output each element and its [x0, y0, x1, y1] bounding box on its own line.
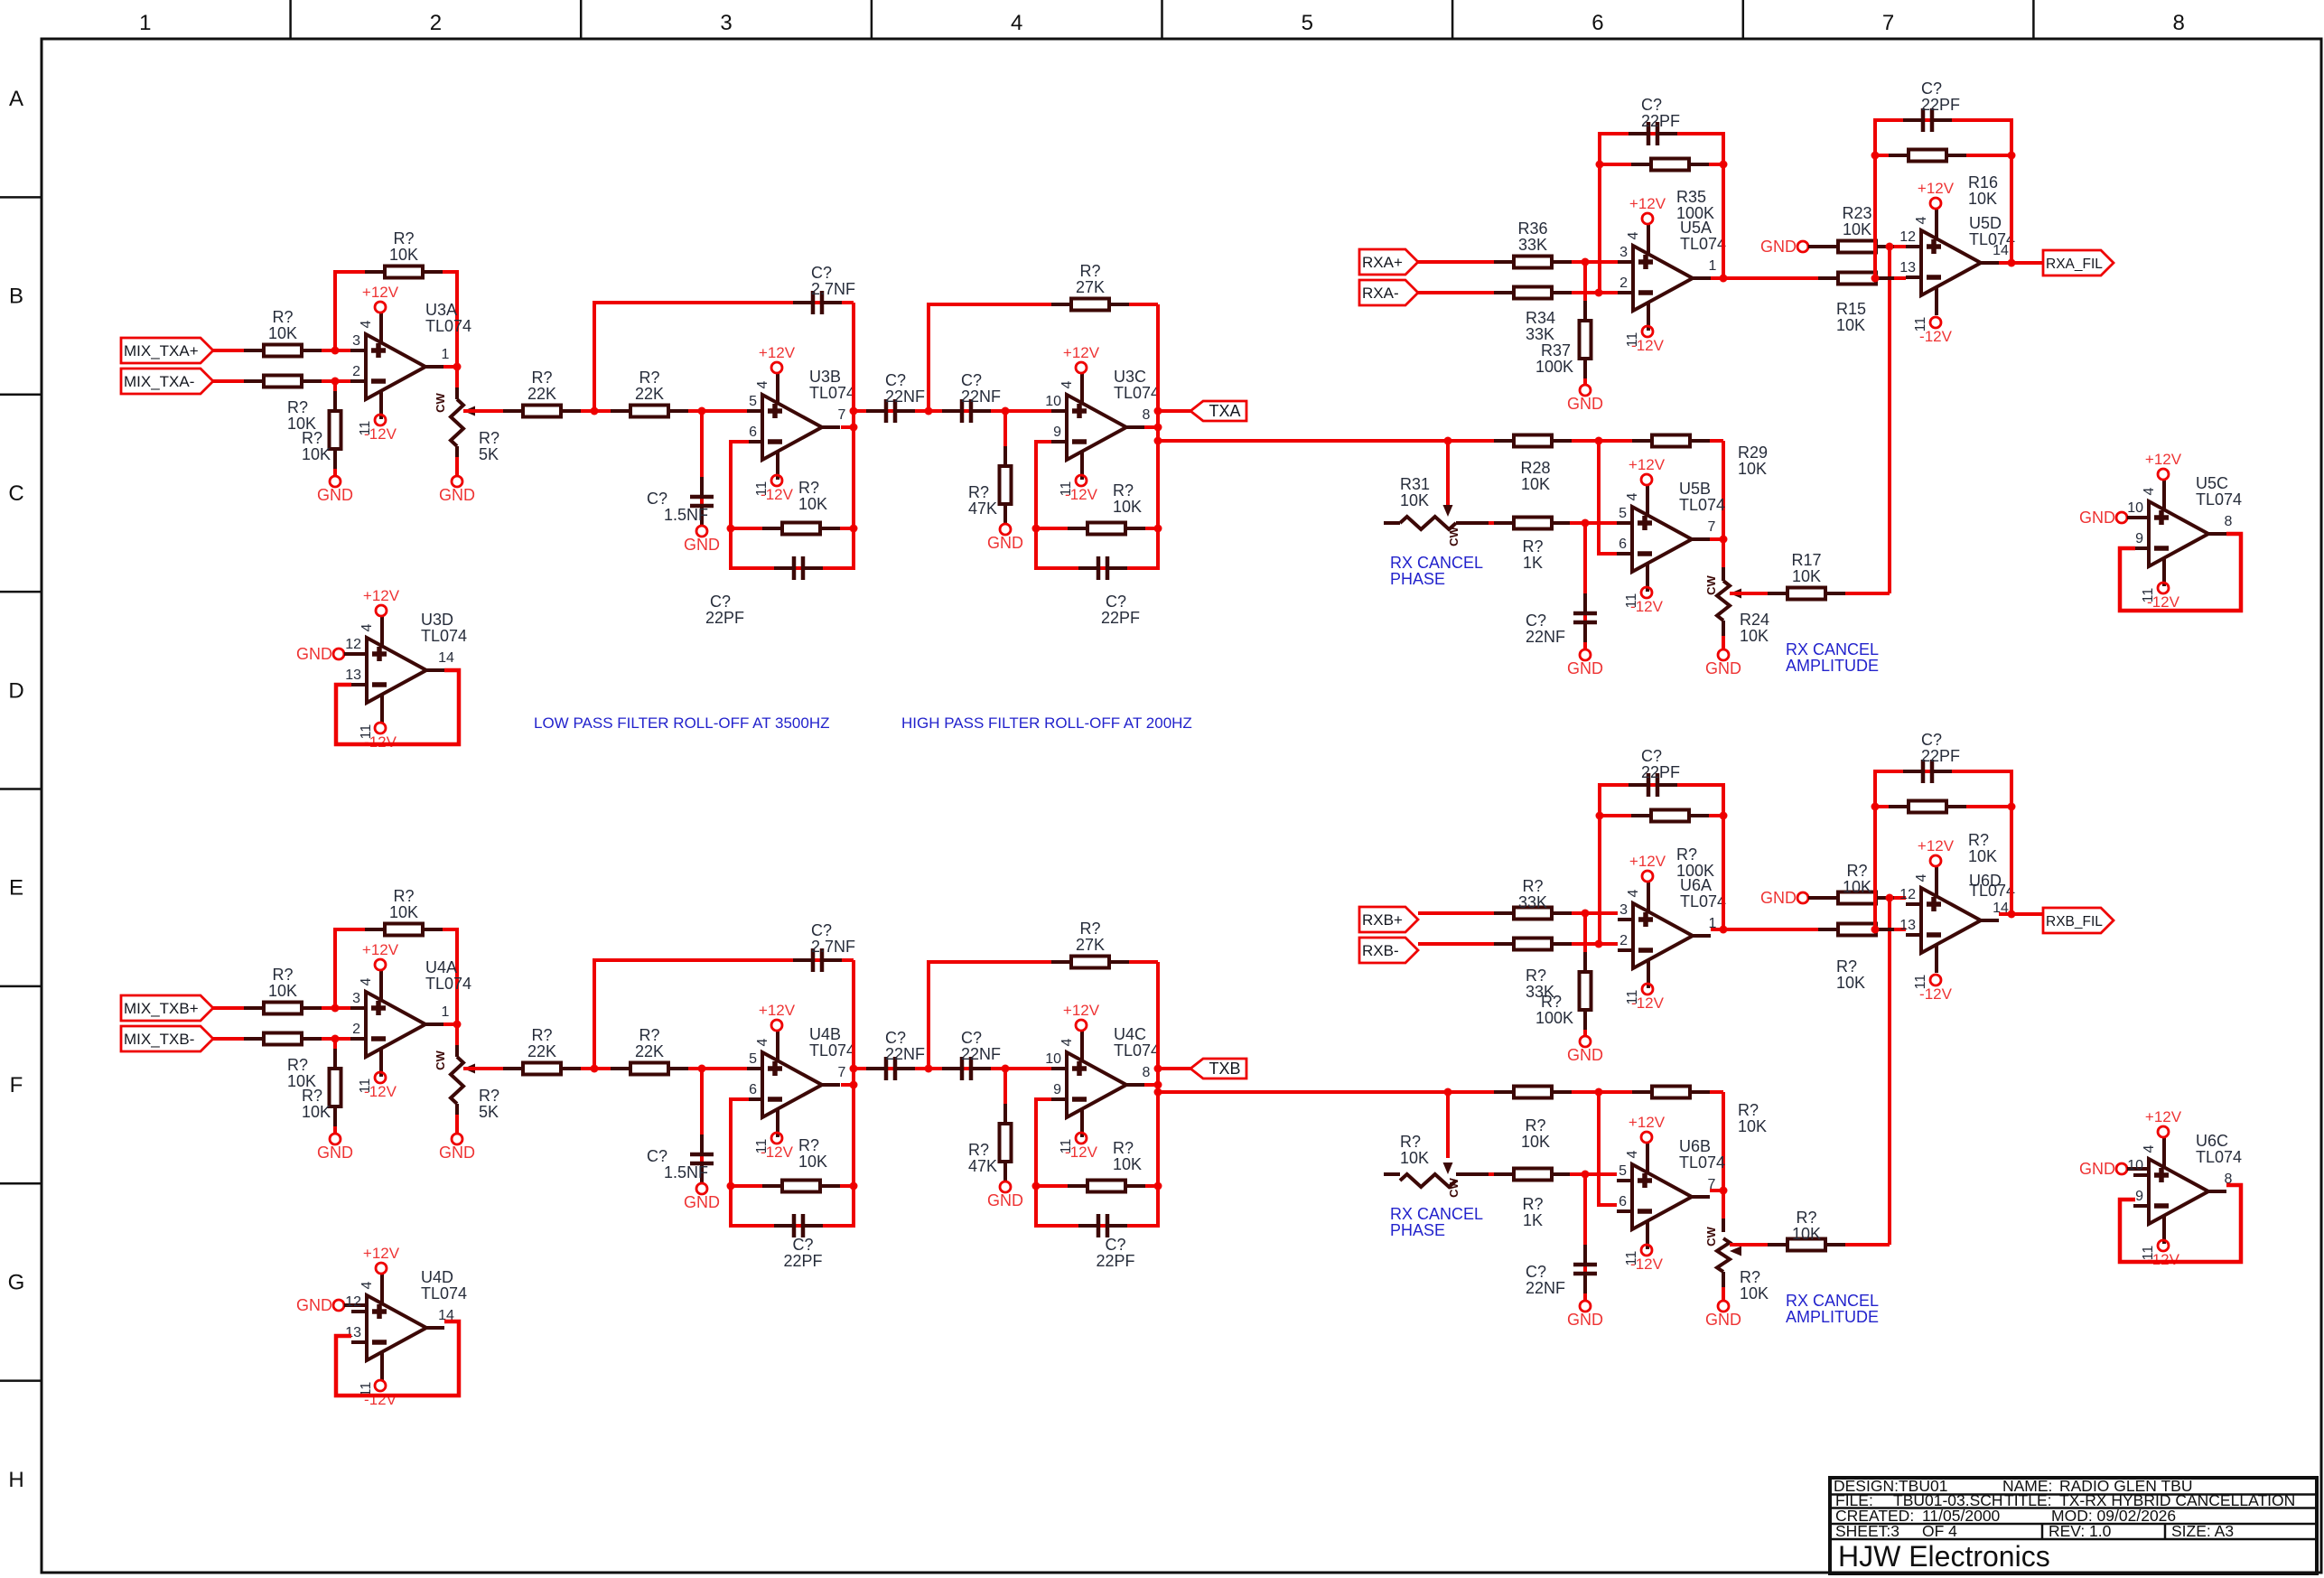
wire	[213, 379, 350, 383]
svg-text:GND: GND	[317, 486, 353, 504]
svg-text:22K: 22K	[527, 385, 556, 403]
svg-text:C?: C?	[961, 371, 982, 389]
svg-text:33K: 33K	[1518, 893, 1547, 911]
svg-text:+12V: +12V	[759, 1002, 796, 1019]
svg-text:12: 12	[345, 1294, 361, 1310]
label R? 27K	[1076, 262, 1105, 296]
wire follower loop unused	[2120, 534, 2241, 611]
svg-text:100K: 100K	[1676, 862, 1714, 880]
node	[1154, 1081, 1162, 1089]
label R31 10K	[1400, 475, 1430, 509]
svg-text:GND: GND	[2079, 1160, 2115, 1178]
ground port gnd	[1760, 238, 1808, 256]
wire inverting loop	[731, 1099, 854, 1226]
capacitor C? 22PF u5d	[1903, 760, 1952, 783]
capacitor C? 22PF feedback	[1629, 773, 1677, 797]
node fb r	[1720, 812, 1728, 820]
label R28 10K	[1520, 459, 1550, 493]
ground	[1567, 385, 1603, 413]
svg-text:-12V: -12V	[761, 486, 794, 503]
wire pot bottom	[455, 457, 459, 476]
wire inverting loop 2	[1036, 442, 1158, 568]
svg-text:U5C: U5C	[2196, 474, 2228, 492]
wire follower loop unused	[2120, 1185, 2241, 1262]
svg-text:5: 5	[1302, 11, 1313, 35]
svg-text:22PF: 22PF	[783, 1252, 822, 1270]
svg-text:22K: 22K	[527, 1042, 556, 1060]
label R? 10K	[1113, 1139, 1142, 1173]
svg-text:-12V: -12V	[2147, 1251, 2180, 1268]
node output pin1	[453, 363, 462, 371]
svg-text:TXA: TXA	[1209, 402, 1240, 420]
svg-text:10K: 10K	[798, 1153, 827, 1171]
svg-text:R?: R?	[639, 369, 659, 387]
label R16 10K	[1968, 173, 1998, 208]
svg-text:10K: 10K	[1113, 498, 1142, 516]
svg-text:R?: R?	[1846, 862, 1867, 880]
wire wiper to r17	[1730, 592, 1890, 595]
svg-text:RXA_FIL: RXA_FIL	[2046, 257, 2103, 272]
wire r23 to pin12	[1894, 896, 1906, 900]
wire hpf feedback	[929, 304, 1158, 411]
port MIX_TXB-	[121, 1026, 213, 1051]
svg-text:+12V: +12V	[2145, 451, 2182, 468]
resistor R17 10K wiper	[1768, 588, 1845, 600]
svg-text:R15: R15	[1836, 300, 1866, 318]
svg-text:U3B: U3B	[809, 368, 841, 386]
svg-text:4: 4	[1011, 11, 1022, 35]
svg-text:-12V: -12V	[1631, 337, 1665, 354]
svg-text:4: 4	[1625, 1150, 1640, 1158]
wire fb down	[1722, 1092, 1725, 1229]
svg-text:1.5NF: 1.5NF	[664, 1163, 708, 1181]
svg-text:C?: C?	[961, 1029, 982, 1047]
wire gnd lead	[1808, 245, 1820, 248]
svg-text:6: 6	[1591, 11, 1603, 35]
svg-text:TITLE:: TITLE:	[2004, 1491, 2052, 1509]
svg-text:B: B	[9, 285, 23, 309]
node	[850, 407, 858, 416]
svg-text:R31: R31	[1400, 475, 1430, 493]
svg-text:22PF: 22PF	[705, 609, 744, 627]
label C? 22NF	[885, 371, 925, 406]
label R? 10K	[1836, 957, 1865, 992]
label U5D	[1969, 214, 2015, 248]
svg-text:R36: R36	[1517, 219, 1547, 238]
wire loop r 2	[1036, 1184, 1158, 1188]
op-amp U3C	[1045, 373, 1150, 496]
svg-text:6: 6	[1619, 1194, 1627, 1209]
label RX CANCEL PHASE	[1390, 1205, 1483, 1239]
node pin2	[331, 1035, 340, 1043]
power +12V U5A	[1629, 195, 1666, 224]
svg-text:R23: R23	[1842, 204, 1871, 222]
wiper arrow R?	[1730, 1247, 1741, 1256]
svg-text:R17: R17	[1791, 551, 1821, 569]
wire u5d out	[1999, 261, 2043, 265]
capacitor C? 2.7NF	[793, 291, 842, 314]
svg-text:GND: GND	[317, 1144, 353, 1162]
wire u5d fb loop	[1875, 771, 2011, 929]
label R? 22K	[527, 1026, 556, 1060]
svg-text:R?: R?	[272, 966, 293, 984]
node	[1002, 1065, 1010, 1073]
label C? 22NF	[885, 1029, 925, 1063]
svg-text:PHASE: PHASE	[1390, 570, 1445, 588]
wire wiper to r17	[1730, 1243, 1890, 1247]
label U5A	[1680, 219, 1726, 253]
wire u5d fb r line	[1875, 805, 2011, 808]
svg-text:R?: R?	[798, 479, 819, 497]
label U3D	[421, 611, 467, 645]
svg-text:GND: GND	[439, 486, 475, 504]
port RXB_FIL	[2043, 908, 2114, 933]
svg-text:33K: 33K	[1526, 325, 1554, 343]
svg-text:10K: 10K	[1521, 1133, 1550, 1151]
svg-text:8: 8	[2173, 11, 2185, 35]
resistor R? 47K	[1000, 446, 1012, 524]
resistor R? 1K	[1494, 1169, 1572, 1181]
wire fb r line	[1600, 163, 1723, 166]
svg-text:10: 10	[1045, 394, 1061, 409]
label R? 100K	[1676, 845, 1714, 880]
svg-text:GND: GND	[1567, 1311, 1603, 1329]
port RXA-	[1359, 280, 1418, 305]
svg-text:13: 13	[345, 668, 361, 683]
svg-text:RX CANCEL: RX CANCEL	[1390, 1205, 1483, 1223]
node	[925, 407, 933, 416]
wire gnd lead unused2	[344, 1303, 369, 1307]
node fb r	[1720, 161, 1728, 169]
label U6C	[2196, 1132, 2242, 1166]
svg-text:22NF: 22NF	[1526, 628, 1565, 646]
label U3A	[425, 301, 471, 335]
svg-text:22PF: 22PF	[1101, 609, 1140, 627]
svg-text:R37: R37	[1541, 341, 1571, 359]
node	[591, 407, 599, 416]
svg-text:-12V: -12V	[1630, 598, 1664, 615]
label R37 100K	[1535, 341, 1573, 376]
wire r1k to pin5	[1570, 1172, 1617, 1176]
wire pot to r1k	[1489, 521, 1499, 525]
wire pin6 loop	[1599, 1092, 1617, 1205]
svg-text:10K: 10K	[1738, 460, 1767, 478]
svg-text:10: 10	[2127, 500, 2143, 516]
label U4B	[809, 1025, 855, 1060]
svg-text:TL074: TL074	[421, 1284, 467, 1303]
node output pin1	[453, 1021, 462, 1029]
wire main line 2	[854, 409, 1051, 413]
svg-text:10K: 10K	[1968, 190, 1997, 208]
resistor R? 10K input+	[244, 345, 322, 357]
svg-text:G: G	[8, 1270, 25, 1294]
label R? 10K	[1521, 1116, 1550, 1151]
wire fb down	[1722, 441, 1725, 578]
power +12V U5D	[1918, 180, 1955, 209]
svg-text:R35: R35	[1676, 188, 1706, 206]
svg-text:R?: R?	[1113, 481, 1134, 500]
svg-text:-12V: -12V	[1065, 486, 1098, 503]
power +12V U4B	[759, 1002, 796, 1031]
svg-text:CW: CW	[434, 1050, 447, 1069]
svg-text:R?: R?	[1541, 993, 1562, 1011]
node pin5	[1582, 519, 1590, 528]
resistor R? 10K to gnd	[330, 1049, 341, 1126]
title block	[1830, 1478, 2317, 1573]
wire	[213, 1037, 350, 1041]
node r28 out	[1595, 437, 1603, 445]
node wiper tap	[1444, 1088, 1452, 1097]
svg-text:+12V: +12V	[1063, 344, 1100, 361]
wire pot to r1k	[1489, 1172, 1499, 1176]
ground port unused2	[296, 1296, 344, 1314]
power -12V U5B	[1630, 587, 1664, 615]
wire fb loop	[1600, 134, 1723, 293]
svg-text:5: 5	[749, 394, 757, 409]
svg-text:-12V: -12V	[2147, 593, 2180, 611]
pot bottom lead	[455, 446, 459, 459]
svg-text:REV: 1.0: REV: 1.0	[2049, 1522, 2112, 1540]
ground port unused	[2079, 1160, 2127, 1178]
svg-text:10K: 10K	[798, 495, 827, 513]
label U6B	[1679, 1137, 1725, 1172]
svg-text:U4A: U4A	[425, 958, 457, 976]
svg-text:9: 9	[1053, 425, 1061, 440]
svg-text:8: 8	[1143, 1065, 1151, 1080]
pot top lead	[455, 387, 459, 399]
svg-text:RX CANCEL: RX CANCEL	[1786, 1292, 1879, 1310]
svg-text:100K: 100K	[1676, 204, 1714, 222]
svg-text:GND: GND	[987, 1191, 1023, 1209]
power -12V U4D	[364, 1380, 397, 1408]
resistor R? 10K hpf fb2	[1068, 523, 1145, 535]
svg-text:R?: R?	[1968, 831, 1989, 849]
node pin2	[331, 378, 340, 386]
svg-text:C?: C?	[710, 593, 731, 611]
label C? 2.7NF	[811, 921, 855, 956]
svg-text:10K: 10K	[1968, 847, 1997, 865]
svg-text:10K: 10K	[1836, 974, 1865, 992]
node out	[1720, 536, 1728, 544]
svg-text:TL074: TL074	[1679, 496, 1725, 514]
op-amp U4D unused	[345, 1274, 454, 1396]
svg-text:R?: R?	[1522, 537, 1543, 556]
wire	[213, 349, 350, 352]
svg-text:U5B: U5B	[1679, 480, 1711, 498]
node pin3	[331, 347, 340, 355]
power +12V U5C	[2145, 451, 2182, 480]
label R? 10K	[1740, 1268, 1769, 1303]
svg-text:1: 1	[1709, 258, 1717, 274]
svg-text:10K: 10K	[1521, 475, 1550, 493]
svg-text:-12V: -12V	[1630, 1256, 1664, 1273]
label C? 22PF	[1101, 593, 1140, 627]
resistor R? 22K	[611, 1063, 688, 1075]
capacitor C? 22PF u5d	[1903, 108, 1952, 132]
svg-text:1K: 1K	[1523, 1211, 1543, 1229]
power -12V U6C	[2147, 1240, 2180, 1268]
wire hpf feedback	[929, 962, 1158, 1069]
power +12V U3B	[759, 344, 796, 373]
power -12V U5C	[2147, 583, 2180, 611]
svg-text:MIX_TXB-: MIX_TXB-	[124, 1031, 194, 1048]
potentiometer R24 10K amplitude	[1717, 581, 1730, 621]
resistor R? 10K lpf feedback	[762, 1181, 840, 1192]
op-amp U6D	[1899, 866, 2009, 989]
label R? 47K	[968, 1141, 997, 1175]
svg-text:RX CANCEL: RX CANCEL	[1390, 554, 1483, 572]
svg-text:2: 2	[430, 11, 442, 35]
svg-text:TL074: TL074	[1680, 892, 1726, 910]
label R? 10K	[1968, 831, 1997, 865]
svg-text:5K: 5K	[479, 1103, 499, 1121]
pot top lead	[455, 1045, 459, 1057]
svg-text:-12V: -12V	[364, 1083, 397, 1100]
ground	[987, 1181, 1023, 1209]
svg-text:PHASE: PHASE	[1390, 1221, 1445, 1239]
svg-text:1.5NF: 1.5NF	[664, 506, 708, 524]
resistor R? 100K feedback	[1631, 810, 1709, 822]
svg-text:R?: R?	[1400, 1133, 1421, 1151]
svg-text:33K: 33K	[1518, 236, 1547, 254]
svg-text:+12V: +12V	[1629, 456, 1666, 473]
column numbers	[139, 11, 2185, 35]
capacitor C? 22PF	[774, 556, 823, 580]
power +12V U3A	[362, 284, 399, 313]
svg-text:27K: 27K	[1076, 278, 1105, 296]
wire feedback	[335, 272, 457, 367]
svg-text:GND: GND	[1705, 1311, 1741, 1329]
svg-text:CW: CW	[1704, 1226, 1718, 1246]
label R24 10K	[1740, 611, 1769, 645]
label R? 10K	[1113, 481, 1142, 516]
label RX CANCEL PHASE	[1390, 554, 1483, 588]
wire out stub 2	[1144, 425, 1158, 429]
svg-text:6: 6	[1619, 537, 1627, 552]
svg-text:47K: 47K	[968, 1157, 997, 1175]
svg-text:C?: C?	[885, 371, 906, 389]
svg-text:C?: C?	[1641, 96, 1662, 114]
node	[1002, 407, 1010, 416]
svg-text:R?: R?	[1525, 1116, 1545, 1134]
label R? 1K	[1522, 537, 1543, 572]
power -12V U3C	[1065, 475, 1098, 503]
resistor R? 22K	[503, 406, 581, 417]
svg-text:5: 5	[749, 1051, 757, 1067]
svg-text:U3D: U3D	[421, 611, 453, 629]
label R? 10K	[389, 229, 418, 264]
svg-text:12: 12	[1899, 887, 1916, 902]
capacitor C? 22PF feedback	[1629, 122, 1677, 145]
svg-text:R?: R?	[1676, 845, 1697, 864]
svg-text:22NF: 22NF	[885, 1045, 925, 1063]
svg-text:3: 3	[352, 333, 360, 349]
wire long output line	[1158, 439, 1723, 443]
label R? 33K	[1518, 877, 1547, 911]
svg-text:C?: C?	[1105, 1236, 1125, 1254]
ground	[439, 1134, 475, 1162]
node u5d pin13	[1871, 926, 1880, 934]
wire gnd lead unused2	[344, 652, 369, 656]
op-amp U5C unused	[2127, 480, 2232, 602]
capacitor C? 22NF	[942, 1057, 991, 1080]
resistor R23 10K r23	[1818, 241, 1896, 253]
wiper arrow R?	[463, 1064, 475, 1074]
resistor R? 100K to gnd	[1580, 952, 1591, 1030]
resistor R? 10K input-	[244, 1033, 322, 1045]
svg-text:+12V: +12V	[362, 284, 399, 301]
power +12V U3C	[1063, 344, 1100, 373]
op-amp U6A	[1618, 882, 1717, 1004]
label R? 10K	[389, 887, 418, 921]
svg-text:22K: 22K	[635, 385, 664, 403]
wire out stub u_a	[443, 1022, 457, 1026]
svg-text:H: H	[8, 1468, 23, 1492]
wire rx+	[1418, 911, 1618, 915]
label R? 10K	[1843, 862, 1871, 896]
node u5d fb r	[2008, 803, 2016, 811]
wire long output line	[1158, 1090, 1723, 1094]
wire out u5a	[1711, 276, 1820, 280]
svg-text:6: 6	[749, 425, 757, 440]
svg-text:U4C: U4C	[1114, 1025, 1146, 1043]
node	[727, 1182, 735, 1191]
svg-text:22NF: 22NF	[961, 1045, 1001, 1063]
svg-text:TL074: TL074	[425, 317, 471, 335]
power +12V U6B	[1629, 1114, 1666, 1143]
svg-text:+12V: +12V	[362, 941, 399, 958]
wire rx-	[1418, 942, 1618, 946]
power -12V U6A	[1631, 984, 1665, 1012]
row letters	[8, 87, 25, 1492]
node rx-	[1595, 940, 1603, 948]
label R? 10K	[287, 1056, 316, 1090]
row dividers left band	[0, 197, 42, 1380]
wire r15 to pin13	[1894, 928, 1906, 931]
wire out stub	[841, 1083, 854, 1087]
svg-text:OF 4: OF 4	[1922, 1522, 1957, 1540]
wire pot top	[455, 367, 459, 389]
svg-text:D: D	[8, 678, 23, 703]
svg-text:10K: 10K	[268, 982, 297, 1000]
port MIX_TXA+	[121, 338, 213, 363]
power -12V U3A	[364, 415, 397, 443]
svg-text:R?: R?	[1740, 1268, 1760, 1286]
wire feedback	[335, 929, 457, 1024]
svg-text:-12V: -12V	[1919, 985, 1953, 1003]
ground port unused	[2079, 509, 2127, 527]
capacitor C? 22NF	[942, 399, 991, 423]
label R17 10K	[1791, 551, 1821, 585]
wire out to pot	[1710, 1189, 1723, 1192]
port TXA	[1190, 401, 1246, 421]
ground	[1567, 1301, 1603, 1329]
svg-text:22PF: 22PF	[1921, 747, 1960, 765]
svg-text:TL074: TL074	[1969, 230, 2015, 248]
label R36 33K	[1517, 219, 1547, 254]
svg-text:7: 7	[1882, 11, 1894, 35]
wire main line	[463, 1067, 749, 1070]
label R? 47K	[968, 483, 997, 518]
svg-text:C?: C?	[811, 264, 832, 282]
resistor R? 10K r15	[1818, 924, 1896, 936]
wire r15 to pin13	[1894, 276, 1906, 280]
node	[591, 1065, 599, 1073]
svg-text:4: 4	[1914, 216, 1929, 224]
svg-text:14: 14	[438, 650, 454, 666]
potentiometer R31 10K phase	[1400, 517, 1456, 529]
pot left stub	[1384, 521, 1400, 525]
